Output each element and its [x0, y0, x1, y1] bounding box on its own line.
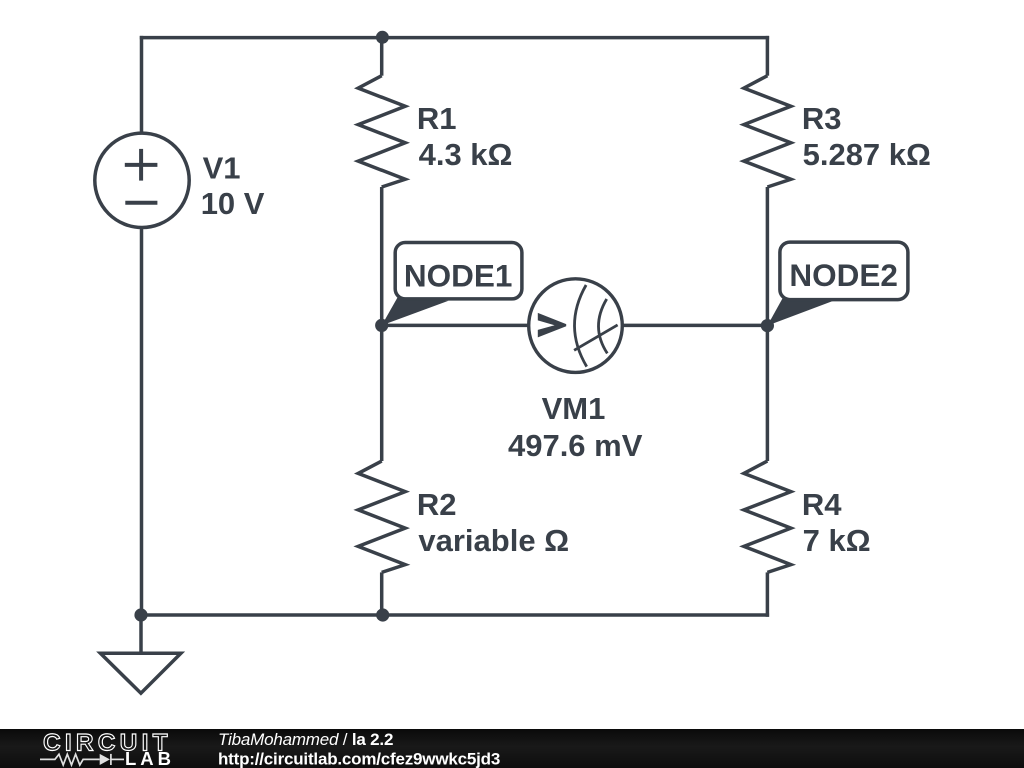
svg-text:7 kΩ: 7 kΩ [803, 523, 871, 558]
svg-text:NODE1: NODE1 [404, 258, 513, 294]
svg-text:R4: R4 [802, 487, 842, 522]
wire left rail lower [140, 227, 144, 615]
svg-text:V1: V1 [203, 151, 241, 186]
label R1 value [417, 101, 513, 172]
svg-text:http://circuitlab.com/cfez9wwk: http://circuitlab.com/cfez9wwkc5jd3 [218, 749, 500, 768]
svg-text:10 V: 10 V [201, 186, 265, 221]
CircuitLab logo [40, 730, 175, 768]
svg-text:NODE2: NODE2 [789, 257, 898, 293]
svg-text:variable Ω: variable Ω [418, 523, 569, 558]
svg-text:4.3 kΩ: 4.3 kΩ [419, 137, 513, 172]
resistor R1 [358, 76, 405, 187]
wire top rail [140, 36, 769, 40]
label VM1 value [508, 391, 643, 463]
svg-text:TibaMohammed / la 2.2: TibaMohammed / la 2.2 [218, 730, 393, 749]
svg-text:R2: R2 [417, 487, 457, 522]
label V1 value [201, 151, 265, 221]
voltmeter VM1 [529, 279, 623, 373]
wire left rail upper [140, 36, 144, 134]
node NODE2 label tail [767, 298, 833, 326]
ground [100, 615, 180, 693]
wire right rail upper [766, 36, 770, 76]
node NODE1 label box [395, 243, 522, 299]
CircuitLab footer bar [0, 729, 1024, 768]
node NODE1 junction [375, 319, 388, 332]
label R3 value [802, 101, 931, 172]
wire middle rail bottom stub [380, 572, 384, 615]
label R2 value [417, 487, 569, 558]
wire middle rail mid [380, 187, 384, 325]
svg-text:R1: R1 [417, 101, 457, 136]
node junction bottom-left [134, 608, 147, 621]
svg-text:LAB: LAB [125, 748, 175, 768]
wire right rail bottom stub [766, 572, 770, 616]
svg-text:VM1: VM1 [542, 391, 606, 426]
node NODE2 junction [761, 319, 774, 332]
wire middle rail top stub [380, 36, 384, 76]
wire VM1 to NODE2 [622, 324, 767, 328]
wire right rail mid [766, 187, 770, 461]
svg-text:R3: R3 [802, 101, 842, 136]
voltage source V1 [95, 133, 189, 227]
label R4 value [802, 487, 871, 558]
svg-text:497.6 mV: 497.6 mV [508, 428, 643, 463]
wire bottom rail [140, 613, 769, 617]
resistor R2 [358, 461, 405, 572]
node junction bottom-middle [376, 608, 389, 621]
node NODE1 label tail [382, 298, 449, 326]
wire middle rail lower [380, 325, 384, 461]
resistor R4 [744, 461, 791, 572]
svg-text:5.287 kΩ: 5.287 kΩ [803, 137, 931, 172]
resistor R3 [744, 76, 791, 187]
node junction top [376, 31, 389, 44]
node NODE2 label box [780, 242, 908, 300]
wire NODE1 to VM1 [382, 324, 529, 328]
